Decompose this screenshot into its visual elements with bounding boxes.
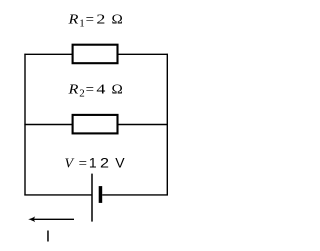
wire mid-right xyxy=(117,124,168,126)
wire right vertical xyxy=(166,54,168,196)
label R2 value xyxy=(67,83,122,100)
svg-text:1: 1 xyxy=(89,154,97,170)
svg-text:V: V xyxy=(65,156,75,171)
resistor R1 xyxy=(73,45,118,64)
label R1 value xyxy=(67,12,122,29)
svg-text:2: 2 xyxy=(100,154,109,170)
svg-text:Ω: Ω xyxy=(112,83,123,98)
svg-text:R: R xyxy=(67,12,79,27)
wire left vertical xyxy=(24,54,26,196)
wire mid-left xyxy=(24,124,73,126)
svg-text:Ω: Ω xyxy=(112,12,123,27)
battery V long plate xyxy=(91,174,93,222)
wire bottom-left xyxy=(24,194,92,196)
svg-text:=: = xyxy=(86,83,94,98)
wire bottom-right xyxy=(102,194,168,196)
svg-text:R: R xyxy=(67,83,79,98)
label V value xyxy=(65,154,126,171)
wire top-left xyxy=(24,53,73,55)
svg-text:I: I xyxy=(46,229,50,246)
svg-text:=: = xyxy=(79,156,87,171)
resistor R2 xyxy=(73,115,118,133)
wire top-right xyxy=(117,53,168,55)
battery V short plate xyxy=(99,186,103,203)
current arrow xyxy=(28,216,74,222)
svg-text:2: 2 xyxy=(79,88,85,100)
svg-text:V: V xyxy=(115,154,125,170)
svg-text:4: 4 xyxy=(96,83,105,98)
svg-text:1: 1 xyxy=(79,17,85,29)
svg-text:=: = xyxy=(86,12,94,27)
svg-text:2: 2 xyxy=(96,12,105,27)
